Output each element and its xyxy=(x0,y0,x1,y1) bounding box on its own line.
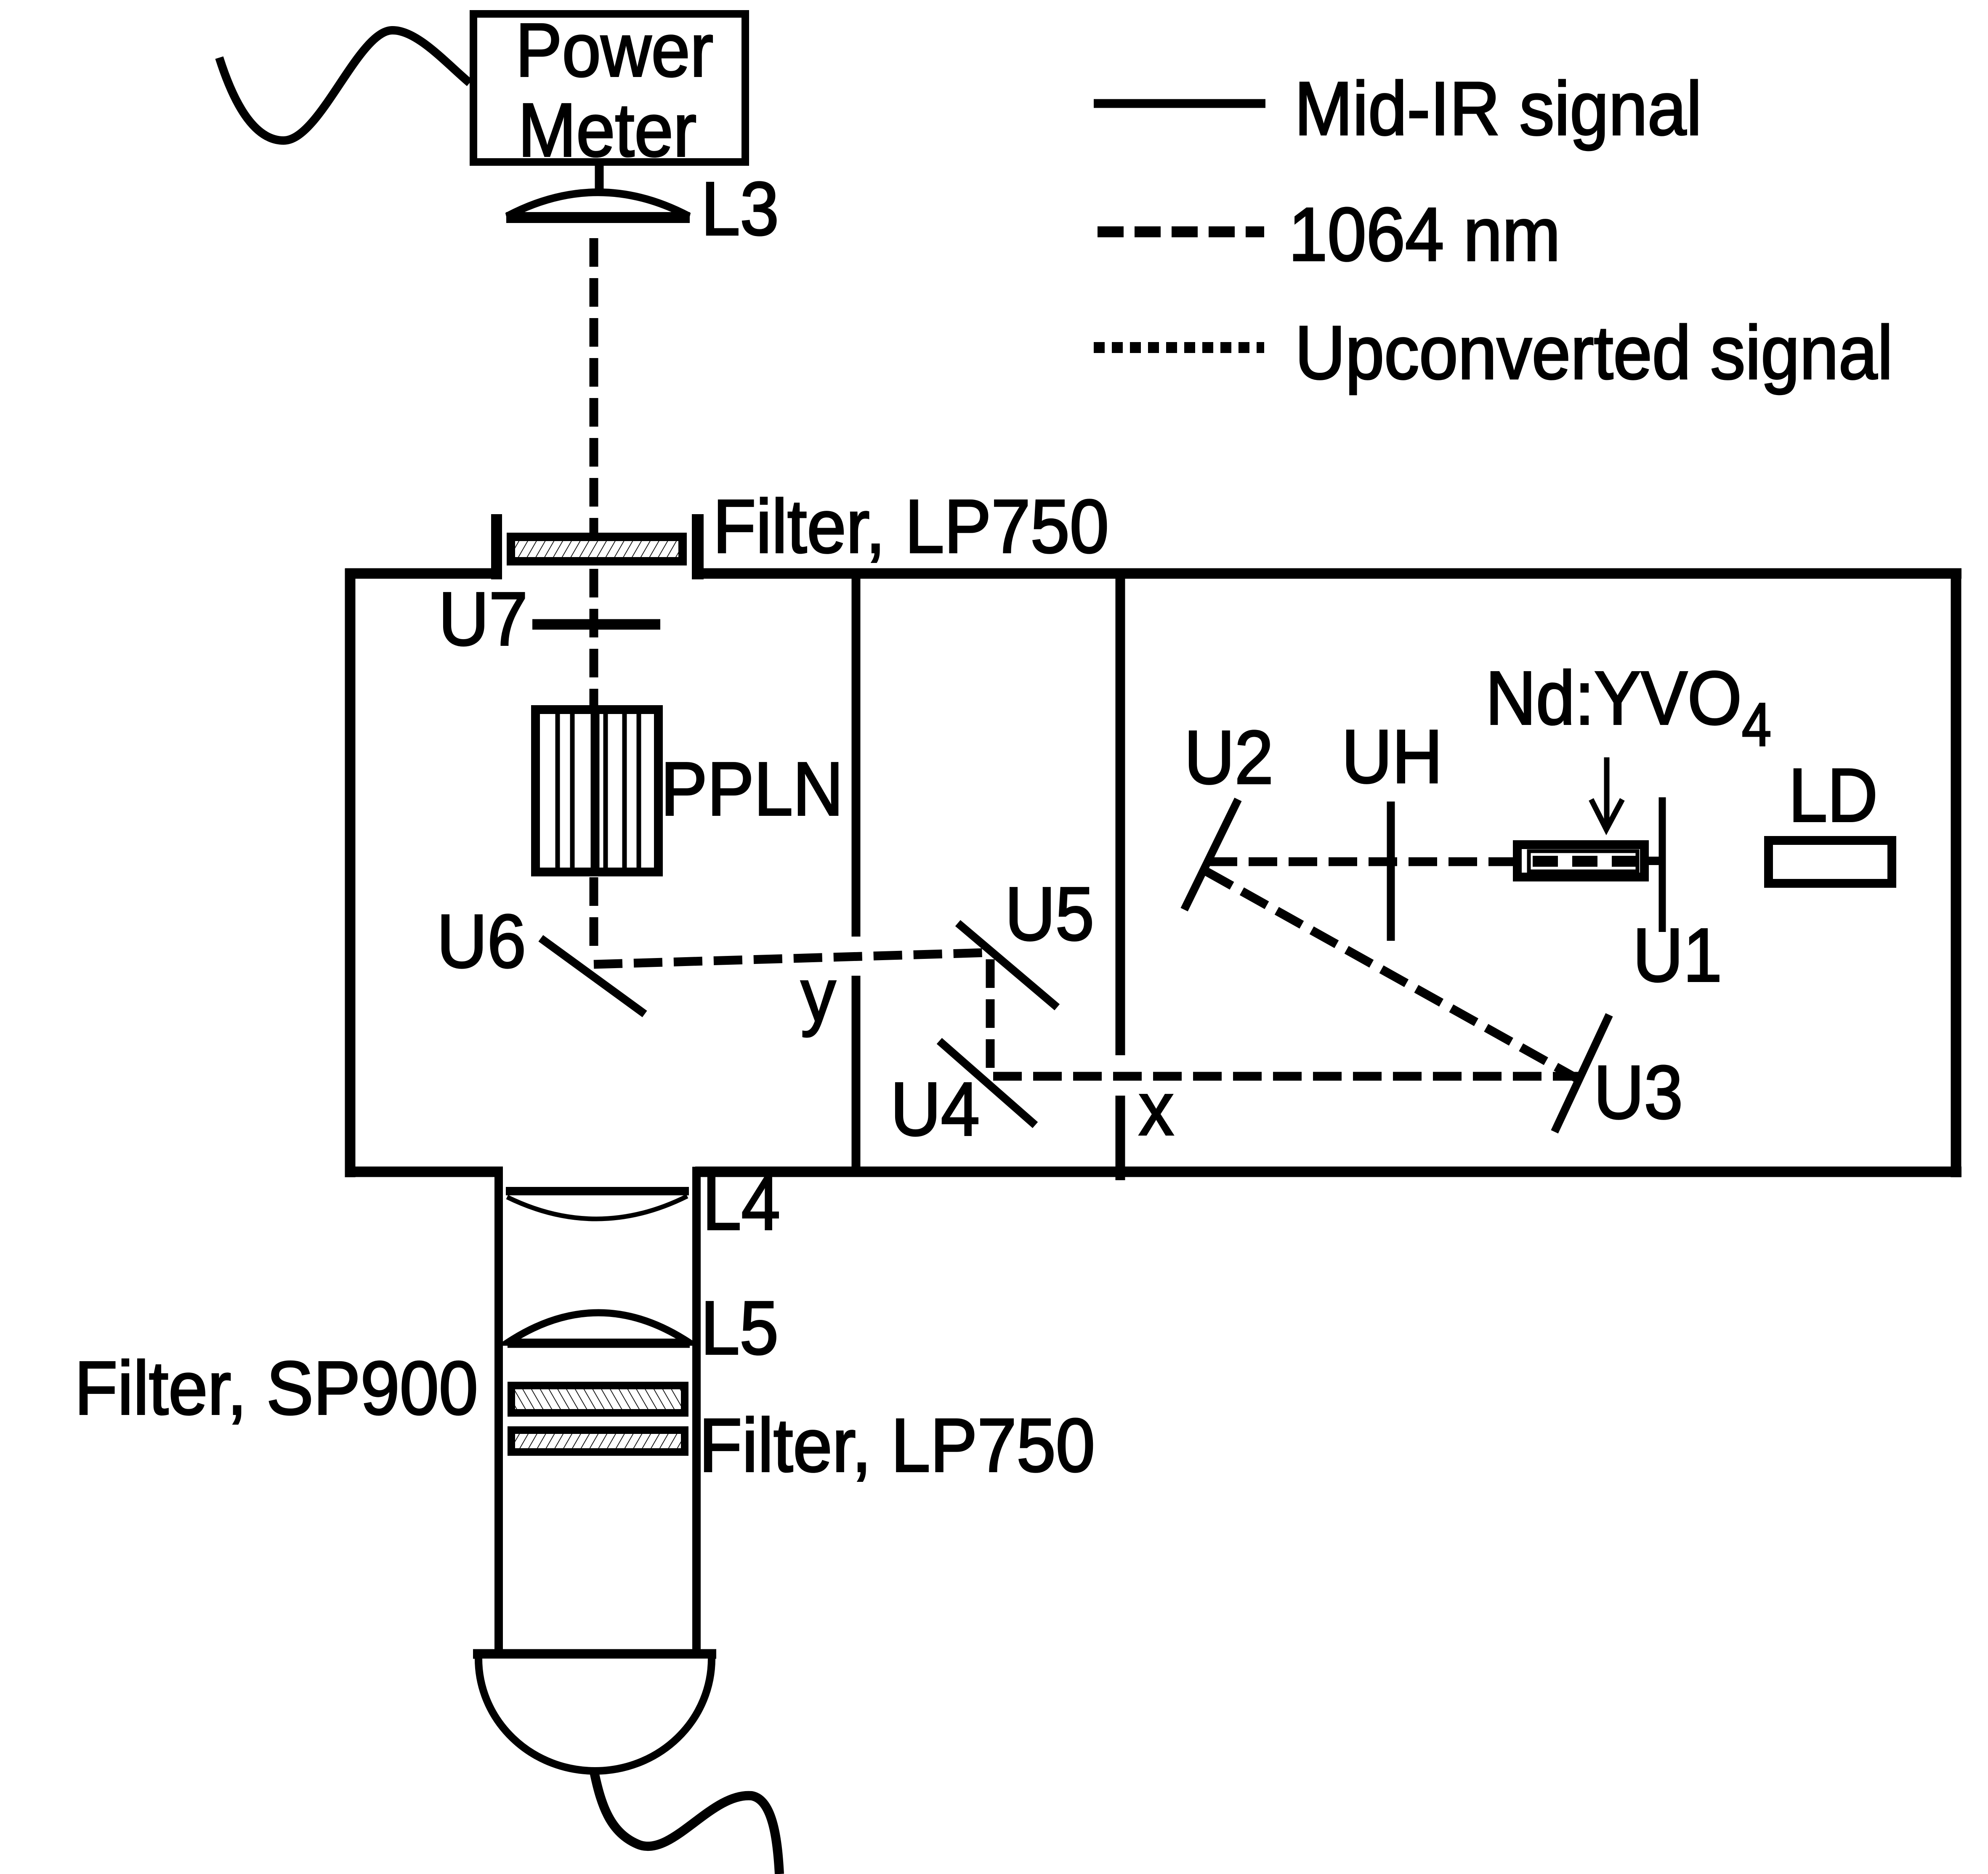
svg-text:x: x xyxy=(1139,1067,1174,1151)
svg-text:U1: U1 xyxy=(1633,913,1722,998)
svg-text:L3: L3 xyxy=(701,167,779,251)
svg-text:PPLN: PPLN xyxy=(661,747,843,831)
svg-text:U6: U6 xyxy=(437,899,526,984)
svg-text:L4: L4 xyxy=(702,1161,780,1246)
svg-text:U4: U4 xyxy=(890,1067,980,1152)
svg-text:U5: U5 xyxy=(1005,872,1094,956)
svg-text:Filter, LP750: Filter, LP750 xyxy=(713,484,1109,569)
svg-text:U2: U2 xyxy=(1184,715,1273,800)
svg-text:1064 nm: 1064 nm xyxy=(1289,192,1560,277)
svg-text:Meter: Meter xyxy=(518,88,696,173)
svg-text:y: y xyxy=(801,953,836,1038)
svg-text:Mid-IR signal: Mid-IR signal xyxy=(1294,66,1702,151)
svg-text:U3: U3 xyxy=(1594,1050,1683,1135)
svg-text:Upconverted signal: Upconverted signal xyxy=(1295,311,1893,395)
svg-text:Filter, SP900: Filter, SP900 xyxy=(74,1346,478,1431)
svg-text:Filter, LP750: Filter, LP750 xyxy=(699,1403,1095,1488)
svg-text:UH: UH xyxy=(1342,714,1443,799)
svg-text:Power: Power xyxy=(516,8,713,93)
svg-text:L5: L5 xyxy=(701,1286,779,1370)
svg-text:LD: LD xyxy=(1789,753,1878,838)
svg-text:U7: U7 xyxy=(439,577,528,661)
